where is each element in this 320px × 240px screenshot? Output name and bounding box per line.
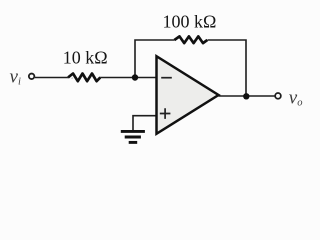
svg-text:10 kΩ: 10 kΩ: [63, 48, 108, 68]
svg-text:100 kΩ: 100 kΩ: [163, 12, 217, 32]
